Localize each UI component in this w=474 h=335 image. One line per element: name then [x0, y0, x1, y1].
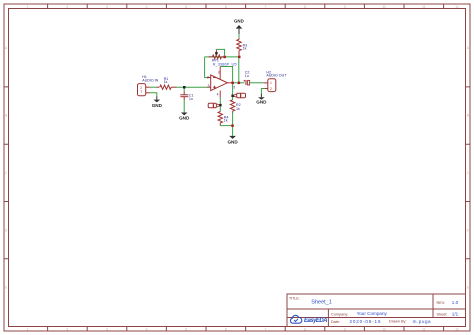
- resistor R2: [230, 97, 234, 112]
- svg-text:Sheet:: Sheet:: [437, 313, 448, 317]
- svg-text:1u: 1u: [189, 97, 193, 101]
- svg-text:Your Company: Your Company: [357, 311, 388, 316]
- svg-text:3: 3: [208, 84, 210, 88]
- svg-text:4: 4: [217, 92, 219, 96]
- ground net flag GND (top, arrow pointing up): [234, 19, 244, 35]
- svg-text:2: 2: [270, 87, 272, 91]
- wire op-amp pin 4 down to node: [219, 98, 221, 105]
- wire R2 to ground junction: [232, 113, 234, 129]
- svg-text:1u: 1u: [245, 74, 249, 78]
- svg-text:6: 6: [225, 328, 227, 332]
- svg-text:B: B: [467, 114, 469, 118]
- wire R1 to op-amp pin 3: [177, 86, 207, 88]
- capacitor C4 (polarized bypass, horizontal): [208, 103, 219, 107]
- ground symbol at H2: [256, 94, 267, 105]
- svg-text:9: 9: [344, 5, 346, 9]
- svg-text:9: 9: [344, 328, 346, 332]
- resistor R4: [218, 106, 222, 125]
- svg-text:10: 10: [382, 328, 386, 332]
- wire op-amp output to C2: [232, 82, 245, 84]
- potentiometer RP1: [209, 49, 225, 58]
- svg-text:12: 12: [455, 328, 459, 332]
- svg-text:Sheet_1: Sheet_1: [311, 300, 332, 306]
- svg-text:GND: GND: [179, 116, 190, 121]
- svg-text:1: 1: [270, 81, 272, 85]
- wire op-amp pin 8 jog down to output node: [220, 67, 232, 82]
- svg-text:11: 11: [422, 5, 426, 9]
- resistor R3: [237, 38, 241, 57]
- svg-text:2020-06-16: 2020-06-16: [350, 319, 381, 324]
- wire H2 pin 2 to ground: [261, 89, 265, 94]
- wire C1 to ground: [183, 100, 185, 113]
- wire H1 pin 2 to R1: [150, 86, 157, 88]
- svg-text:1k: 1k: [224, 119, 228, 123]
- svg-text:7: 7: [265, 328, 267, 332]
- svg-text:AUDIO IN: AUDIO IN: [142, 78, 158, 82]
- svg-text:3: 3: [106, 5, 108, 9]
- wire RP1 wiper to RP1 right terminal: [216, 49, 224, 55]
- svg-text:1: 1: [140, 89, 142, 93]
- svg-text:1/1: 1/1: [452, 311, 459, 316]
- svg-text:1k: 1k: [243, 47, 247, 51]
- connector H2 AUDIO OUT: [264, 79, 276, 92]
- svg-text:6: 6: [225, 5, 227, 9]
- ground symbol at C1: [179, 113, 190, 121]
- svg-text:1k: 1k: [164, 80, 168, 84]
- svg-text:GND: GND: [234, 19, 244, 24]
- svg-text:E: E: [467, 286, 469, 290]
- capacitor C1: [180, 89, 188, 101]
- wire output node down to bypass cap / R2 node: [232, 84, 234, 96]
- resistor R1: [157, 85, 177, 89]
- svg-text:1k: 1k: [236, 107, 240, 111]
- junction at R3 bottom / feedback drop: [238, 56, 241, 59]
- wire ground node to ground symbol: [232, 128, 234, 136]
- svg-text:REV:: REV:: [437, 301, 446, 305]
- svg-text:8: 8: [304, 328, 306, 332]
- svg-text:GND: GND: [256, 99, 267, 104]
- svg-text:R_3386P_U5: R_3386P_U5: [213, 62, 238, 67]
- ground symbol at R2/R4: [227, 136, 238, 145]
- svg-text:1.0: 1.0: [452, 300, 459, 305]
- wire feedback node: RP1 right terminal to R3 bottom: [205, 56, 240, 58]
- svg-text:1: 1: [27, 328, 29, 332]
- svg-text:GND: GND: [227, 140, 238, 145]
- svg-text:2: 2: [67, 328, 69, 332]
- svg-text:5: 5: [233, 85, 235, 89]
- wire GND flag to R3 top: [238, 34, 240, 38]
- svg-text:4: 4: [146, 5, 148, 9]
- junction at output node (pin 8 drop): [231, 82, 234, 85]
- op-amp U1: [207, 67, 232, 98]
- svg-text:2: 2: [207, 76, 209, 80]
- wire feedback node down to output node: [238, 58, 240, 83]
- junction at RP1 right terminal: [223, 56, 226, 59]
- svg-text:EasyEDA: EasyEDA: [304, 318, 328, 324]
- svg-text:8: 8: [304, 5, 306, 9]
- svg-text:1: 1: [27, 5, 29, 9]
- svg-text:Company:: Company:: [331, 312, 348, 316]
- connector H1 AUDIO IN: [138, 84, 150, 96]
- title block: [287, 294, 466, 327]
- svg-text:8: 8: [218, 70, 220, 74]
- svg-text:5: 5: [185, 328, 187, 332]
- junction at output node (feedback drop): [238, 82, 241, 85]
- svg-text:Drawn By:: Drawn By:: [389, 320, 407, 324]
- svg-text:2: 2: [67, 5, 69, 9]
- wire H1 pin 1 to ground: [150, 93, 157, 96]
- svg-text:11: 11: [422, 328, 426, 332]
- capacitor C3 (polarized, horizontal): [234, 93, 246, 97]
- junction at pin 4 node: [219, 104, 222, 107]
- svg-text:3: 3: [106, 328, 108, 332]
- svg-text:4: 4: [146, 328, 148, 332]
- svg-text:AUDIO OUT: AUDIO OUT: [266, 74, 287, 78]
- wire C2 to H2 pin 1: [250, 82, 264, 84]
- svg-text:GND: GND: [152, 103, 163, 108]
- svg-text:12: 12: [455, 5, 459, 9]
- junction at ground node (R4/R2): [231, 124, 234, 127]
- svg-text:10: 10: [382, 5, 386, 9]
- wire feedback to op-amp pin 2 (inverting input): [205, 57, 207, 78]
- svg-text:Date:: Date:: [331, 320, 340, 324]
- svg-text:m.puga: m.puga: [413, 319, 431, 324]
- EasyEDA logo: [290, 315, 327, 324]
- junction at bypass cap / R2 node: [231, 95, 234, 98]
- svg-text:E: E: [5, 286, 7, 290]
- wire R4 bottom to ground junction: [220, 125, 232, 127]
- svg-text:5: 5: [185, 5, 187, 9]
- ground symbol at H1: [152, 96, 163, 108]
- svg-text:7: 7: [265, 5, 267, 9]
- capacitor C2 (polarized, output coupling): [244, 80, 250, 85]
- svg-text:B: B: [5, 114, 7, 118]
- junction at input node (C1 tap): [183, 86, 186, 89]
- svg-text:TITLE:: TITLE:: [289, 297, 300, 301]
